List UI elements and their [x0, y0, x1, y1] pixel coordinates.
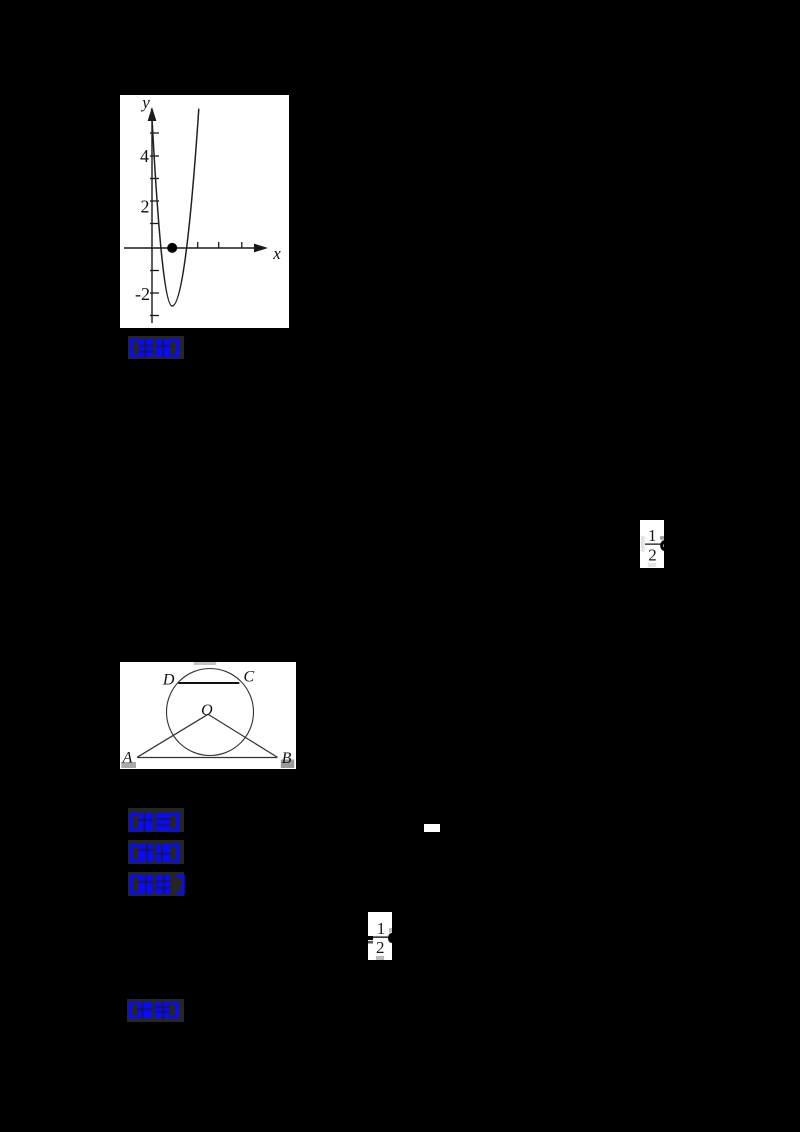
- svg-text:A: A: [122, 749, 133, 766]
- svg-text:y: y: [140, 95, 150, 112]
- svg-text:2: 2: [141, 197, 150, 217]
- svg-text:2: 2: [376, 938, 385, 957]
- svg-text:1: 1: [377, 919, 386, 938]
- svg-text:-2: -2: [135, 284, 150, 304]
- svg-text:2: 2: [648, 546, 657, 565]
- svg-text:D: D: [162, 671, 175, 688]
- svg-text:B: B: [282, 750, 292, 767]
- svg-text:4: 4: [140, 146, 149, 166]
- svg-text:C: C: [243, 669, 254, 686]
- svg-text:x: x: [272, 244, 281, 263]
- svg-text:1: 1: [648, 526, 657, 545]
- svg-text:O: O: [201, 702, 213, 719]
